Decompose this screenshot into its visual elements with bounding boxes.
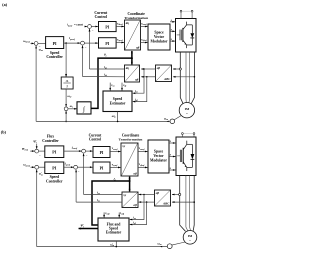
block flux and speed estimator (b) xyxy=(98,218,129,241)
wire slip omega (a) xyxy=(65,89,67,107)
wire iqs feedback riser (a) xyxy=(82,46,84,77)
wire phase D (b) xyxy=(193,176,194,231)
svg-text:Control: Control xyxy=(89,138,101,142)
wire omega ref input (b) xyxy=(31,166,35,168)
svg-text:Controller: Controller xyxy=(46,55,63,59)
block alpha-beta to xy transform (b) xyxy=(122,192,138,208)
block space vector modulator (a) xyxy=(148,24,170,50)
svg-text:PI: PI xyxy=(105,42,109,46)
wire current tap A (b) xyxy=(172,194,180,196)
node S4b summing junction y-current (b) xyxy=(74,165,78,169)
wire i s-beta to estimator (a) xyxy=(133,77,147,102)
svg-text:= const: = const xyxy=(74,23,83,27)
svg-text:dq: dq xyxy=(126,66,130,70)
wire v beta ref (b) xyxy=(138,166,147,168)
DC link terminals (a) xyxy=(180,12,182,18)
svg-text:PI: PI xyxy=(100,151,104,155)
wire psi hat output thick (b) xyxy=(79,228,98,230)
block PI flux controller (b) xyxy=(39,150,45,152)
wire S2 to PI d (a) xyxy=(91,26,98,28)
svg-text:Estimator: Estimator xyxy=(106,231,122,235)
svg-text:−: − xyxy=(78,169,80,173)
svg-text:−: − xyxy=(92,28,94,32)
motor IM (b) xyxy=(183,231,197,245)
svg-text:dq: dq xyxy=(126,21,130,25)
svg-text:αβ: αβ xyxy=(136,45,140,49)
svg-text:ABC: ABC xyxy=(163,77,171,81)
block alpha-beta to ABC (a) xyxy=(156,65,172,82)
svg-text:PI: PI xyxy=(52,165,56,170)
speed sensor (a) xyxy=(174,115,182,120)
wire vds ref (a) xyxy=(116,26,124,28)
wire omega hat feedback riser (b) xyxy=(36,170,38,247)
wire phase D (a) xyxy=(191,52,194,104)
svg-text:dsref: dsref xyxy=(68,25,72,27)
wire speed feedback riser (a) xyxy=(35,46,37,122)
svg-text:Transformation: Transformation xyxy=(124,16,148,20)
wire zeta s angle thick (b) xyxy=(92,181,130,225)
svg-text:PI: PI xyxy=(53,41,57,46)
svg-text:PI: PI xyxy=(105,26,109,30)
wire Sa Sb Sc gate signals (b) xyxy=(169,142,175,144)
svg-text:−: − xyxy=(39,153,41,157)
svg-text:i L: i L xyxy=(66,80,69,83)
svg-text:−: − xyxy=(86,153,88,157)
wire isy ref (b) xyxy=(64,166,74,168)
svg-text:PI: PI xyxy=(100,166,104,170)
svg-text:Speed: Speed xyxy=(113,97,123,101)
wire phase B (b) xyxy=(186,176,188,231)
block integrator (a) xyxy=(77,102,91,114)
wire vqs ref (a) xyxy=(116,42,124,44)
block alpha-beta to ABC (b) xyxy=(155,190,171,206)
wire isx feedback riser (b) xyxy=(83,154,85,195)
wire vsx ref (b) xyxy=(110,151,121,153)
svg-text:Controller: Controller xyxy=(42,139,59,143)
wire phase C (a) xyxy=(188,52,191,103)
block inverter (b) xyxy=(176,137,196,176)
node S2b summing junction speed (b) xyxy=(35,165,39,169)
wire phase A (a) xyxy=(180,52,183,104)
block PI current d (a) xyxy=(99,22,117,32)
node S2 summing junction d-current (a) xyxy=(88,25,92,29)
wire to slip block (a) xyxy=(65,43,67,77)
wire S4 to PI (a) xyxy=(84,42,98,44)
wire i s-alpha to estimator (b) xyxy=(130,195,144,220)
block PI speed controller (a) xyxy=(38,42,46,44)
block PI speed controller (b) xyxy=(39,166,45,168)
wire i s-alpha-beta stub (b) xyxy=(118,212,120,217)
node S5 summing junction slip+speed (a) xyxy=(64,107,68,111)
svg-text:αβ: αβ xyxy=(134,203,138,207)
wire theta e thick (a) xyxy=(91,58,132,108)
wire omega ref input (a) xyxy=(31,42,34,44)
wire i s-beta to estimator (b) xyxy=(130,202,147,224)
svg-text:αβ: αβ xyxy=(156,191,160,195)
svg-text:PI: PI xyxy=(52,149,56,154)
wire omega hat output (a) xyxy=(117,112,119,122)
block dq to alpha-beta transform (a) xyxy=(125,20,141,50)
block speed estimator (a) xyxy=(103,91,132,112)
svg-text:αβ: αβ xyxy=(135,77,139,81)
wire omega hat output (b) xyxy=(115,241,117,247)
wire Sa Sb Sc gate signals (a) xyxy=(170,21,175,23)
wire psi hat stub (b) xyxy=(36,144,38,149)
wire omega m up into S5 (a) xyxy=(65,111,67,122)
svg-text:Estimator: Estimator xyxy=(110,101,126,105)
wire ids feedback (a) xyxy=(83,76,125,78)
wire i beta (b) xyxy=(139,201,155,203)
svg-text:xy: xy xyxy=(122,193,127,197)
wire omega e (a) xyxy=(68,108,77,110)
block PI current x (b) xyxy=(93,147,110,158)
wire isx ref (b) xyxy=(64,150,82,152)
block PI current q (a) xyxy=(99,38,117,48)
wire current tap C (b) xyxy=(172,201,194,203)
wire vsy ref (b) xyxy=(110,166,121,168)
svg-text:Modulator: Modulator xyxy=(150,158,167,162)
svg-text:~: ~ xyxy=(186,112,188,116)
svg-text:Control: Control xyxy=(95,15,107,19)
svg-text:(a): (a) xyxy=(2,2,7,7)
node S3b summing junction x-current (b) xyxy=(82,149,86,153)
block xy to alpha-beta transform (b) xyxy=(121,143,138,176)
svg-text:αβ: αβ xyxy=(157,66,161,70)
wire omega m bottom line (b) xyxy=(37,246,168,248)
svg-text:(b): (b) xyxy=(1,129,7,134)
block inverter (a) xyxy=(176,19,197,53)
wire current tap C (a) xyxy=(173,76,194,78)
svg-text:αβ: αβ xyxy=(134,171,138,175)
svg-text:∫: ∫ xyxy=(82,106,85,113)
wire v alpha ref (b) xyxy=(138,151,147,153)
wire current tap A (a) xyxy=(173,68,180,70)
wire v s-alpha stub (a) xyxy=(109,83,111,91)
wire S3b to PI (b) xyxy=(86,150,93,152)
wire isy feedback riser (b) xyxy=(75,170,77,203)
node S1b summing junction flux (b) xyxy=(35,149,39,153)
wire phase A (b) xyxy=(180,176,186,232)
wire phase C (b) xyxy=(189,176,192,231)
block slip calculator (a) xyxy=(61,77,73,89)
wire S4b to PI (b) xyxy=(78,166,93,168)
wire iqs ref (a) xyxy=(64,42,81,44)
wire isx feedback (b) xyxy=(84,194,122,196)
block space vector modulator (b) xyxy=(148,140,169,173)
svg-text:xy: xy xyxy=(121,144,126,148)
wire i s-alpha to estimator (a) xyxy=(133,69,144,93)
wire phase B (a) xyxy=(185,52,187,103)
svg-text:−: − xyxy=(85,45,87,49)
block PI current y (b) xyxy=(93,162,110,173)
motor IM (a) xyxy=(179,103,194,118)
wire iqs feedback (a) xyxy=(90,68,125,70)
node S4 summing junction q-current (a) xyxy=(81,41,85,45)
wire i beta (a) xyxy=(141,76,155,78)
wire psi ref input (b) xyxy=(30,150,34,152)
wire omega m bottom line (a) xyxy=(36,120,170,122)
wire i alpha (b) xyxy=(139,194,155,196)
wire v alpha ref (a) xyxy=(141,26,148,28)
wire isy feedback (b) xyxy=(76,201,122,203)
svg-text:Modulator: Modulator xyxy=(150,39,167,43)
svg-text:Controller: Controller xyxy=(46,179,63,183)
wire ids feedback riser (a) xyxy=(89,29,91,69)
block alpha-beta to dq transform (a) xyxy=(125,65,140,82)
DC link terminals (b) xyxy=(181,134,183,137)
svg-text:IM: IM xyxy=(185,107,190,111)
wire i alpha (a) xyxy=(141,68,155,70)
wire v s-alpha-beta stub (b) xyxy=(103,212,105,217)
svg-text:ABC: ABC xyxy=(162,201,170,205)
speed sensor (b) xyxy=(172,242,185,245)
wire v s-beta stub (a) xyxy=(121,83,123,91)
svg-text:Transformation: Transformation xyxy=(119,138,143,142)
wire v beta ref (a) xyxy=(141,42,148,44)
